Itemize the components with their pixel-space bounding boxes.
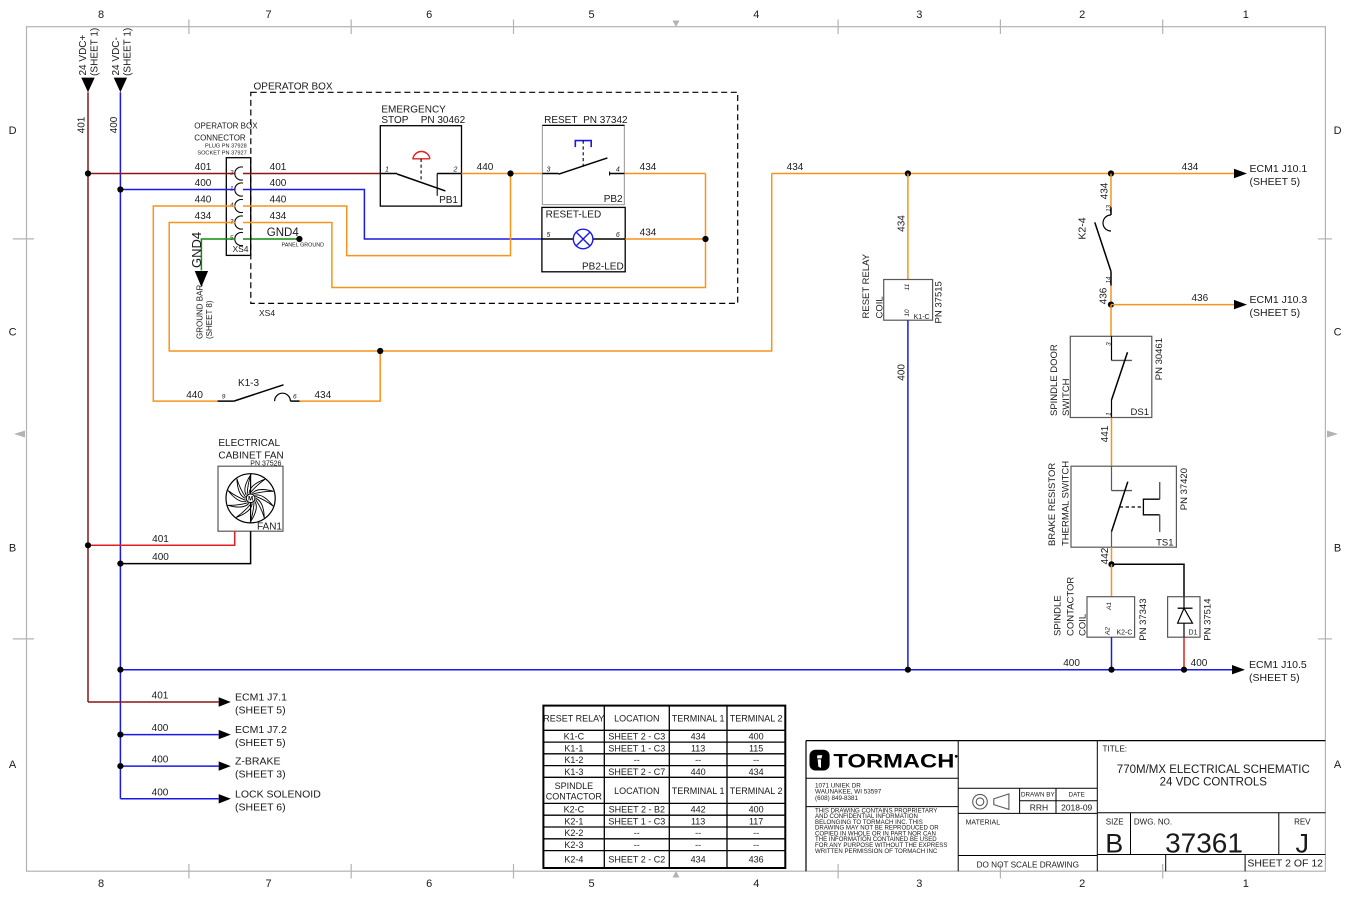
wire 400 connector to reset-led (243, 178, 542, 239)
svg-text:K2-3: K2-3 (564, 840, 583, 850)
wire 434 to K1-C (896, 174, 908, 280)
svg-text:401: 401 (77, 116, 88, 133)
svg-text:13: 13 (1106, 204, 1112, 211)
junction 434 led (702, 236, 708, 242)
title block disclaimer (815, 807, 947, 854)
operator box dashed boundary (251, 81, 738, 317)
svg-text:K1-C: K1-C (914, 314, 930, 321)
svg-text:LOCK SOLENOID: LOCK SOLENOID (235, 788, 321, 800)
svg-text:GND4: GND4 (267, 227, 300, 239)
svg-text:TORMACH: TORMACH (833, 752, 954, 773)
svg-text:TERMINAL 2: TERMINAL 2 (730, 713, 783, 723)
svg-text:SPINDLE DOOR: SPINDLE DOOR (1049, 344, 1060, 416)
svg-text:434: 434 (787, 162, 804, 173)
svg-text:400: 400 (1191, 658, 1208, 669)
svg-text:ECM1 J10.5: ECM1 J10.5 (1249, 659, 1307, 671)
svg-text:440: 440 (195, 195, 212, 206)
sheet ref ECM1 J7.2 (120, 723, 287, 749)
svg-text:400: 400 (152, 552, 169, 563)
svg-text:K2-C: K2-C (1116, 630, 1132, 637)
svg-text:SHEET 2 - C7: SHEET 2 - C7 (608, 767, 665, 777)
svg-text:K1-1: K1-1 (564, 743, 583, 753)
wire 434 main bus (772, 162, 1234, 174)
svg-text:6: 6 (426, 878, 432, 890)
svg-text:401: 401 (195, 162, 212, 173)
svg-text:401: 401 (270, 162, 287, 173)
svg-text:RESET RELAY: RESET RELAY (861, 253, 872, 318)
svg-text:24 VDC-: 24 VDC- (111, 37, 122, 75)
svg-text:7: 7 (265, 878, 271, 890)
svg-text:Z-BRAKE: Z-BRAKE (235, 756, 281, 768)
svg-text:TS1: TS1 (1156, 538, 1173, 549)
wire 401 left rail (77, 92, 89, 702)
wire 400 bottom bus (120, 658, 1232, 670)
svg-text:D: D (1334, 125, 1342, 137)
svg-text:(SHEET 3): (SHEET 3) (235, 769, 286, 781)
svg-text:DRAWN BY: DRAWN BY (1021, 791, 1056, 798)
svg-text:CONNECTOR: CONNECTOR (194, 134, 246, 143)
svg-text:TITLE:: TITLE: (1103, 745, 1128, 754)
svg-text:401: 401 (152, 691, 169, 702)
junction fan 400 (117, 561, 123, 567)
wire 434 PB2 out (624, 162, 705, 174)
svg-text:434: 434 (195, 211, 212, 222)
junction 442 (1108, 561, 1114, 567)
svg-text:400: 400 (270, 178, 287, 189)
svg-text:DWG. NO.: DWG. NO. (1134, 817, 1172, 826)
svg-text:K1-3: K1-3 (238, 378, 260, 389)
svg-text:770M/MX ELECTRICAL SCHEMATIC: 770M/MX ELECTRICAL SCHEMATIC (1117, 764, 1310, 776)
svg-text:--: -- (695, 828, 701, 838)
junction Z-BRAKE (117, 763, 123, 769)
svg-text:442: 442 (1100, 547, 1111, 564)
junction 400 D1 (1181, 667, 1187, 673)
junction 434 bus (377, 348, 383, 354)
door switch DS1 (1049, 336, 1165, 418)
svg-text:D1: D1 (1189, 630, 1198, 637)
svg-text:434: 434 (749, 767, 764, 777)
svg-text:400: 400 (749, 805, 764, 815)
title block grid (806, 741, 1325, 872)
svg-text:6: 6 (426, 9, 432, 21)
svg-text:24 VDC+: 24 VDC+ (78, 34, 89, 75)
wire 400 to connector (120, 178, 235, 190)
svg-text:(SHEET 1): (SHEET 1) (122, 28, 133, 76)
svg-text:ELECTRICAL: ELECTRICAL (218, 438, 280, 449)
connector XS4 labels (194, 122, 258, 157)
svg-text:37361: 37361 (1165, 827, 1243, 858)
svg-text:GND4: GND4 (189, 232, 204, 268)
sheet ref ECM1 J10.5 (1232, 659, 1307, 684)
svg-text:SHEET 2 OF 12: SHEET 2 OF 12 (1247, 858, 1323, 870)
svg-text:SPINDLE: SPINDLE (555, 781, 594, 791)
svg-text:5: 5 (547, 232, 551, 239)
svg-text:XS4: XS4 (232, 244, 248, 254)
svg-text:K2-C: K2-C (564, 805, 585, 815)
svg-text:SHEET 2 - C2: SHEET 2 - C2 (608, 855, 665, 865)
svg-text:PANEL GROUND: PANEL GROUND (282, 242, 325, 248)
wire 400 left rail (109, 92, 121, 799)
svg-text:434: 434 (691, 855, 706, 865)
svg-text:PN 30462: PN 30462 (421, 115, 466, 126)
svg-text:--: -- (634, 840, 640, 850)
svg-text:GROUND BAR: GROUND BAR (196, 285, 205, 339)
junction 400 rail (117, 667, 123, 673)
svg-text:SHEET 1 - C3: SHEET 1 - C3 (608, 816, 665, 826)
sheet ref Z-BRAKE (120, 755, 285, 781)
svg-text:(SHEET 6): (SHEET 6) (235, 801, 286, 813)
wire D1 to bus (red) (1183, 637, 1185, 670)
svg-text:400: 400 (109, 116, 120, 133)
wire 400 K2-C to bus (1111, 637, 1113, 670)
svg-text:PN 30461: PN 30461 (1154, 338, 1165, 380)
wire 442 branch to D1 (1112, 564, 1185, 596)
svg-text:400: 400 (152, 723, 169, 734)
svg-text:A2: A2 (1105, 627, 1112, 636)
svg-text:434: 434 (1100, 182, 1111, 199)
junction 440 (507, 170, 513, 176)
svg-text:SHEET 2 - C3: SHEET 2 - C3 (608, 732, 665, 742)
svg-text:K2-1: K2-1 (564, 816, 583, 826)
svg-text:XS4: XS4 (259, 308, 275, 318)
svg-text:113: 113 (691, 816, 705, 826)
wire GND4 green (201, 239, 299, 270)
svg-text:440: 440 (186, 390, 203, 401)
svg-text:TERMINAL 2: TERMINAL 2 (730, 786, 783, 796)
junction J7.2 (117, 732, 123, 738)
svg-text:(SHEET 5): (SHEET 5) (235, 737, 286, 749)
svg-text:5: 5 (589, 878, 595, 890)
svg-text:PN 37420: PN 37420 (1179, 468, 1190, 510)
junction bus/K2-4 (1108, 170, 1114, 176)
svg-text:117: 117 (749, 816, 763, 826)
svg-text:6: 6 (293, 394, 297, 401)
svg-text:DATE: DATE (1069, 791, 1085, 798)
svg-text:K1-C: K1-C (564, 732, 585, 742)
relay contact K2-4 (1077, 174, 1113, 305)
svg-text:434: 434 (691, 732, 706, 742)
svg-text:A: A (1334, 759, 1342, 771)
svg-text:B: B (1105, 828, 1123, 858)
wire 434 K1-3 to bus (300, 351, 381, 401)
svg-text:440: 440 (691, 767, 706, 777)
svg-text:PB2-LED: PB2-LED (582, 261, 624, 272)
svg-text:--: -- (695, 755, 701, 765)
svg-text:B: B (9, 543, 16, 555)
svg-text:--: -- (753, 755, 759, 765)
svg-text:CONTACTOR: CONTACTOR (546, 792, 603, 802)
svg-text:FAN1: FAN1 (257, 522, 282, 533)
fan FAN1 labels (218, 438, 283, 467)
junction 400/rail (117, 186, 123, 192)
svg-text:SWITCH: SWITCH (1061, 378, 1072, 416)
svg-text:K2-2: K2-2 (564, 828, 583, 838)
svg-text:442: 442 (691, 805, 706, 815)
svg-text:434: 434 (640, 162, 657, 173)
svg-text:COIL: COIL (874, 296, 885, 318)
svg-text:436: 436 (1191, 293, 1208, 304)
svg-text:401: 401 (152, 534, 169, 545)
svg-text:--: -- (753, 828, 759, 838)
svg-text:(SHEET 5): (SHEET 5) (235, 705, 286, 717)
wire 442 to K2-C (1111, 564, 1113, 596)
fan FAN1 (218, 466, 283, 532)
svg-text:DS1: DS1 (1131, 407, 1149, 418)
svg-text:(SHEET 5): (SHEET 5) (1249, 672, 1300, 684)
svg-text:C: C (9, 327, 17, 339)
svg-text:5: 5 (589, 9, 595, 21)
svg-text:LOCATION: LOCATION (614, 786, 659, 796)
svg-text:436: 436 (1098, 287, 1109, 304)
svg-text:441: 441 (1100, 425, 1111, 442)
svg-text:--: -- (695, 840, 701, 850)
panel ground node (267, 227, 324, 249)
svg-text:--: -- (634, 755, 640, 765)
svg-text:434: 434 (1182, 162, 1199, 173)
svg-text:PN 37343: PN 37343 (1138, 599, 1149, 641)
svg-text:400: 400 (152, 787, 169, 798)
svg-text:TERMINAL 1: TERMINAL 1 (672, 786, 725, 796)
svg-text:TERMINAL 1: TERMINAL 1 (672, 713, 725, 723)
reset button PB2 (542, 115, 628, 205)
svg-text:1: 1 (385, 166, 389, 173)
wire 400 K1-C to bus (896, 320, 908, 670)
projection symbol (973, 794, 1009, 810)
wire 440 PB1 to PB2 (462, 162, 543, 174)
svg-text:SHEET 1 - C3: SHEET 1 - C3 (608, 743, 665, 753)
wire 436 to ECM1 J10.3 (1111, 293, 1234, 305)
wire 434 connector to PB2.4 (243, 174, 706, 288)
svg-text:--: -- (634, 828, 640, 838)
svg-text:434: 434 (640, 228, 657, 239)
junction 401/rail (85, 170, 91, 176)
svg-text:440: 440 (477, 162, 494, 173)
svg-text:ECM1 J10.3: ECM1 J10.3 (1250, 294, 1308, 306)
svg-text:440: 440 (270, 195, 287, 206)
svg-text:2: 2 (453, 166, 458, 173)
sheet ref 24 VDC- (SHEET 1) (111, 28, 133, 92)
svg-text:OPERATOR BOX: OPERATOR BOX (254, 81, 333, 92)
svg-text:(SHEET 5): (SHEET 5) (1250, 176, 1301, 188)
sheet ref ECM1 J7.1 (88, 691, 287, 717)
svg-text:K1-3: K1-3 (564, 767, 583, 777)
svg-text:SHEET 2 - B2: SHEET 2 - B2 (609, 805, 665, 815)
svg-text:14: 14 (1106, 276, 1112, 283)
e-stop PB1 (380, 105, 465, 207)
sheet ref LOCK SOLENOID (120, 787, 321, 813)
relay contact K1-3 (218, 378, 300, 401)
reset led PB2-LED (542, 207, 625, 272)
svg-text:7: 7 (265, 9, 271, 21)
svg-text:SPINDLE: SPINDLE (1052, 595, 1063, 636)
svg-text:BRAKE RESISTOR: BRAKE RESISTOR (1047, 463, 1058, 546)
svg-text:(SHEET 1): (SHEET 1) (89, 28, 100, 76)
junction 436 (1108, 302, 1114, 308)
svg-text:436: 436 (749, 855, 764, 865)
svg-text:ECM1 J7.2: ECM1 J7.2 (235, 724, 287, 736)
title block address (815, 783, 882, 802)
svg-text:STOP: STOP (381, 115, 408, 126)
svg-text:(608) 849-8381: (608) 849-8381 (815, 795, 859, 802)
wire 436 to DS1 (1110, 305, 1112, 337)
svg-text:RRH: RRH (1030, 802, 1048, 812)
wire 401 to connector (88, 162, 236, 174)
svg-text:2: 2 (1079, 878, 1085, 890)
svg-text:A: A (9, 759, 17, 771)
svg-text:11: 11 (904, 283, 911, 290)
terminal table (543, 706, 785, 868)
svg-text:K2-4: K2-4 (564, 855, 583, 865)
svg-text:1: 1 (1243, 878, 1249, 890)
svg-text:RESET: RESET (544, 115, 577, 126)
svg-text:RESET RELAY: RESET RELAY (543, 713, 604, 723)
thermal switch TS1 (1047, 461, 1190, 549)
svg-text:115: 115 (749, 743, 763, 753)
svg-text:3: 3 (547, 166, 551, 173)
svg-text:PN 37342: PN 37342 (583, 115, 628, 126)
svg-text:THERMAL SWITCH: THERMAL SWITCH (1060, 461, 1071, 546)
svg-text:4: 4 (753, 9, 759, 21)
svg-text:3: 3 (916, 878, 922, 890)
wire 442 (1100, 547, 1112, 564)
svg-text:PLUG PN 37928: PLUG PN 37928 (205, 143, 247, 149)
svg-text:--: -- (753, 840, 759, 850)
svg-text:LOCATION: LOCATION (614, 713, 659, 723)
Tormach logo (810, 750, 958, 773)
svg-text:9: 9 (222, 394, 226, 401)
svg-text:REV: REV (1294, 817, 1311, 826)
diode D1 (1168, 597, 1214, 641)
wire 401 fan (red) (88, 531, 235, 545)
svg-text:400: 400 (195, 178, 212, 189)
wire 401 connector to PB1 (243, 162, 380, 174)
svg-text:400: 400 (1063, 658, 1080, 669)
svg-text:CONTACTOR: CONTACTOR (1065, 577, 1076, 636)
svg-text:ECM1 J7.1: ECM1 J7.1 (235, 692, 287, 704)
svg-text:8: 8 (98, 878, 104, 890)
svg-text:(SHEET 5): (SHEET 5) (1250, 307, 1301, 319)
svg-text:COIL: COIL (1077, 614, 1088, 636)
svg-text:24 VDC CONTROLS: 24 VDC CONTROLS (1160, 777, 1268, 789)
junction 400 K1-C (905, 667, 911, 673)
svg-text:K2-4: K2-4 (1077, 217, 1089, 239)
svg-text:2018-09: 2018-09 (1061, 802, 1092, 812)
svg-text:RESET-LED: RESET-LED (546, 210, 602, 221)
svg-text:OPERATOR BOX: OPERATOR BOX (194, 122, 258, 131)
svg-text:K1-2: K1-2 (564, 755, 583, 765)
svg-text:400: 400 (749, 732, 764, 742)
wire 440 connector to K1-3 (153, 195, 235, 402)
svg-text:C: C (1334, 327, 1342, 339)
svg-text:434: 434 (314, 390, 331, 401)
svg-text:400: 400 (152, 755, 169, 766)
svg-text:PB1: PB1 (439, 195, 458, 206)
svg-text:6: 6 (616, 232, 620, 239)
wire 434 led out (625, 228, 705, 240)
wire 434 connector to bus (169, 174, 772, 352)
svg-text:PB2: PB2 (604, 194, 623, 205)
svg-text:M: M (248, 497, 253, 503)
svg-text:MATERIAL: MATERIAL (966, 819, 1001, 826)
svg-text:4: 4 (753, 878, 759, 890)
svg-text:10: 10 (904, 309, 911, 317)
svg-text:434: 434 (896, 215, 907, 232)
svg-text:J: J (1296, 828, 1310, 858)
svg-text:3: 3 (916, 9, 922, 21)
svg-text:(SHEET 8): (SHEET 8) (205, 300, 214, 339)
svg-text:SOCKET PN 37927: SOCKET PN 37927 (197, 150, 246, 156)
svg-text:A1: A1 (1106, 602, 1113, 611)
svg-text:SIZE: SIZE (1106, 817, 1124, 826)
svg-text:PN 37514: PN 37514 (1203, 599, 1214, 641)
sheet ref ECM1 J10.3 (1234, 294, 1307, 319)
svg-text:B: B (1334, 543, 1341, 555)
svg-text:2: 2 (1079, 9, 1085, 21)
svg-text:1: 1 (1106, 412, 1113, 416)
svg-text:ECM1 J10.1: ECM1 J10.1 (1250, 163, 1308, 175)
svg-text:PN 37515: PN 37515 (934, 281, 945, 323)
junction fan 401 (85, 542, 91, 548)
svg-text:DO NOT SCALE DRAWING: DO NOT SCALE DRAWING (977, 860, 1079, 869)
svg-text:400: 400 (896, 364, 907, 381)
junction 400 K2-C (1108, 667, 1114, 673)
wire 400 fan (black) (120, 531, 250, 563)
sheet ref 24 VDC+ (SHEET 1) (78, 28, 100, 92)
svg-text:8: 8 (98, 9, 104, 21)
svg-text:4: 4 (616, 166, 620, 173)
wire 441 (1100, 418, 1111, 467)
relay coil K1-C (861, 253, 944, 323)
wire 440 connector to pb1-pb2 junction (243, 174, 511, 256)
title block fields (966, 745, 1324, 870)
connector XS4 body (226, 158, 250, 256)
ground bar sheet ref (189, 232, 214, 339)
svg-text:D: D (9, 125, 17, 137)
junction bus/K1-C (905, 170, 911, 176)
svg-text:113: 113 (691, 743, 705, 753)
svg-text:WRITTEN PERMISSION OF TORMACH: WRITTEN PERMISSION OF TORMACH INC (815, 848, 938, 855)
sheet ref ECM1 J10.1 (1234, 163, 1307, 188)
contactor coil K2-C (1052, 577, 1149, 641)
svg-text:1: 1 (1243, 9, 1249, 21)
svg-text:434: 434 (270, 211, 287, 222)
